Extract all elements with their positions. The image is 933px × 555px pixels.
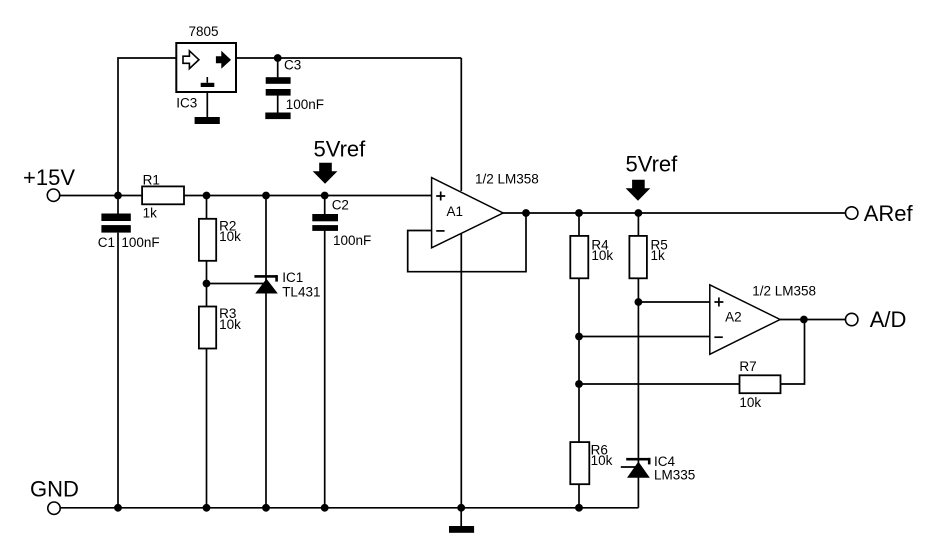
svg-text:IC1: IC1 (282, 270, 303, 285)
svg-text:A2: A2 (725, 309, 742, 324)
svg-text:R1: R1 (143, 172, 160, 187)
svg-text:10k: 10k (591, 453, 613, 468)
svg-text:10k: 10k (591, 248, 613, 263)
svg-text:10k: 10k (219, 317, 241, 332)
svg-text:100nF: 100nF (333, 233, 371, 248)
svg-text:5Vref: 5Vref (314, 136, 367, 161)
svg-text:10k: 10k (219, 229, 241, 244)
svg-text:1k: 1k (651, 248, 666, 263)
svg-text:IC4: IC4 (654, 454, 676, 469)
svg-text:C2: C2 (332, 198, 349, 213)
svg-text:100nF: 100nF (286, 97, 324, 112)
svg-text:10k: 10k (739, 395, 761, 410)
svg-text:R7: R7 (739, 359, 756, 374)
svg-text:C1: C1 (98, 235, 115, 250)
svg-text:LM335: LM335 (654, 468, 695, 483)
svg-text:A1: A1 (447, 204, 464, 219)
svg-text:C3: C3 (284, 58, 301, 73)
svg-text:1/2 LM358: 1/2 LM358 (752, 283, 816, 298)
svg-text:ARef: ARef (864, 201, 914, 226)
svg-text:1/2 LM358: 1/2 LM358 (475, 172, 539, 187)
svg-text:5Vref: 5Vref (626, 152, 679, 177)
svg-text:TL431: TL431 (282, 284, 320, 299)
svg-text:+15V: +15V (23, 165, 75, 190)
svg-text:IC3: IC3 (176, 96, 197, 111)
svg-text:A/D: A/D (870, 307, 907, 332)
svg-text:1k: 1k (143, 205, 158, 220)
svg-text:GND: GND (30, 477, 79, 502)
svg-text:7805: 7805 (189, 24, 219, 39)
svg-text:100nF: 100nF (121, 235, 159, 250)
